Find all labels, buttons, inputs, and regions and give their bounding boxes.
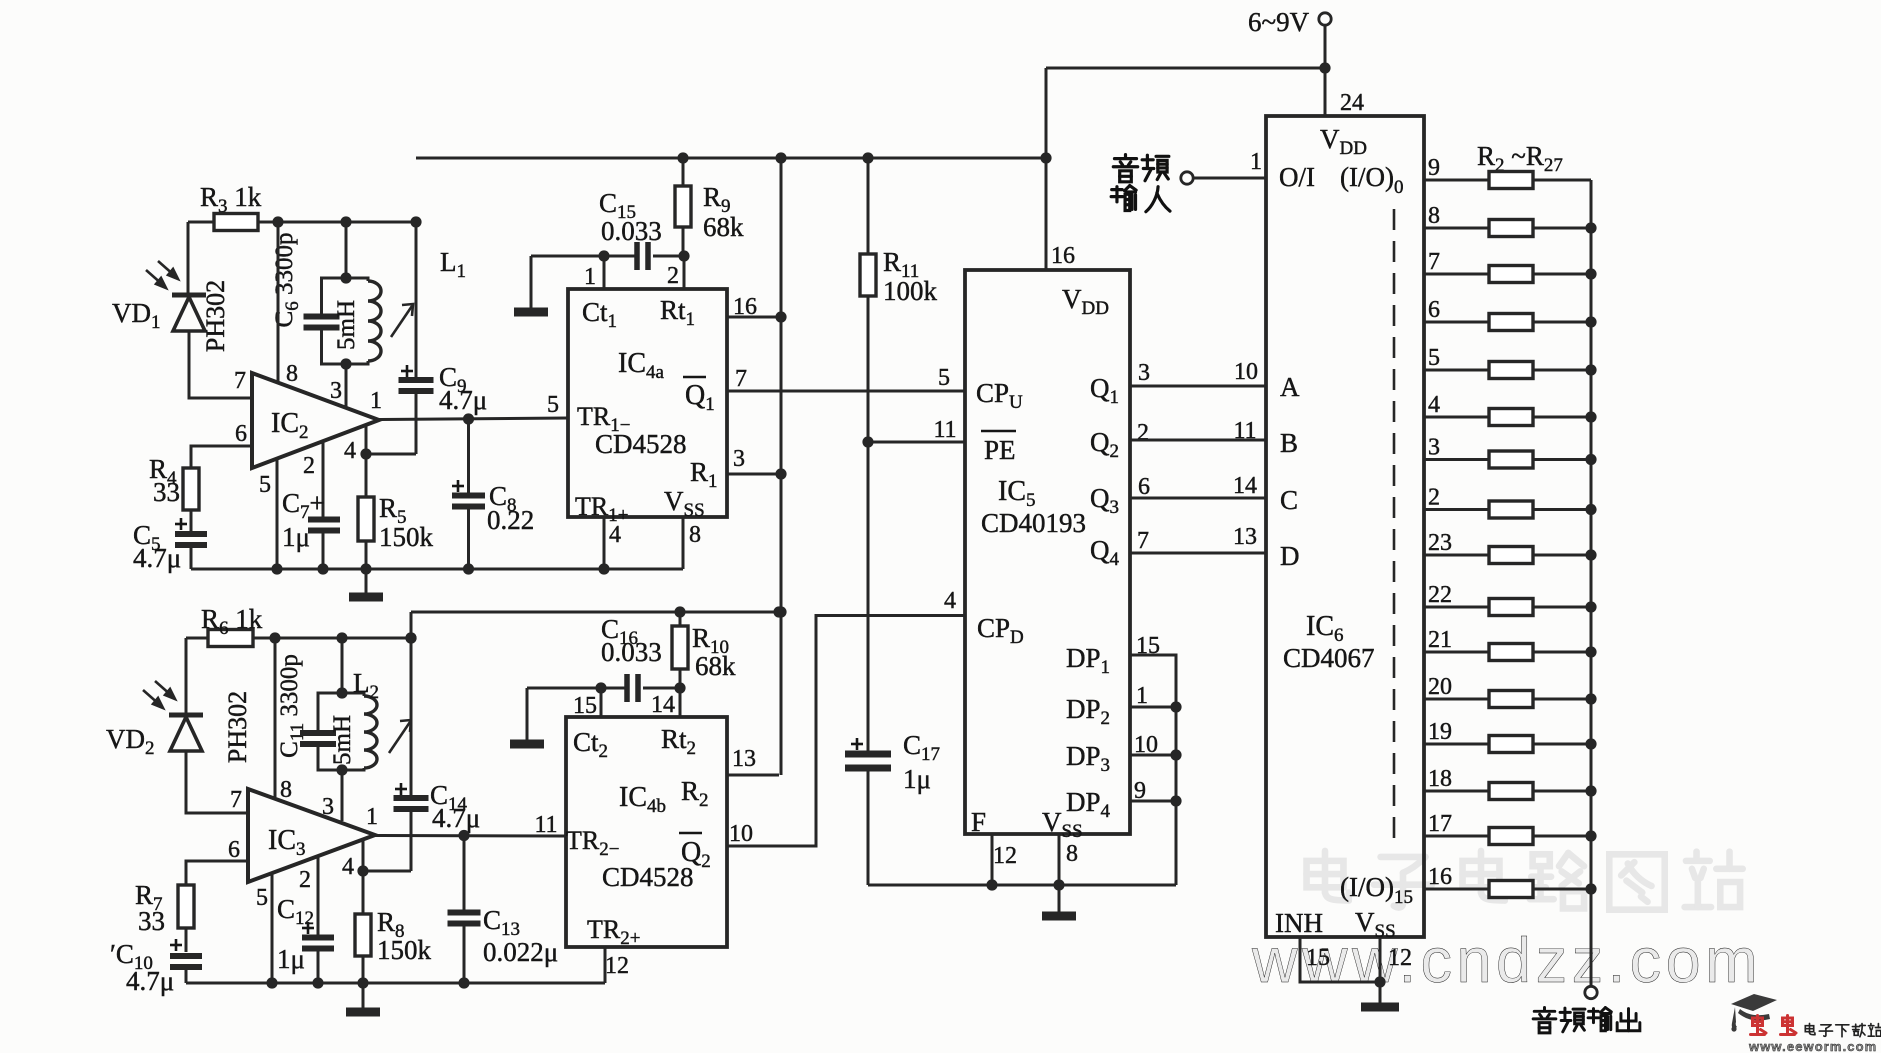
- eeworm logo text: [1751, 1016, 1767, 1035]
- wire IC2 pin4 upper: [365, 425, 368, 497]
- junction bus pin 8: [1585, 222, 1596, 233]
- wire V+ vertical feed: [780, 158, 783, 775]
- wire C9 upper leg: [415, 222, 418, 377]
- wire pin4 to C9 leg: [366, 453, 416, 456]
- wire C16 left net: [527, 687, 627, 690]
- svg-text:11: 11: [933, 417, 956, 443]
- resistor R9: [675, 186, 691, 227]
- junctions on R3 rail: [272, 216, 421, 227]
- svg-text:D: D: [1280, 541, 1300, 571]
- resistor R11: [860, 254, 876, 296]
- plus C17: [851, 738, 863, 750]
- wire VD1 to IC2 pin7: [189, 331, 252, 398]
- resistor ladder R15 (pin 18): [1489, 783, 1533, 800]
- svg-text:5mH: 5mH: [333, 300, 360, 350]
- svg-text:10: 10: [1134, 732, 1158, 758]
- label audio input (Chinese): [1113, 155, 1137, 182]
- plus C9: [401, 365, 413, 377]
- resistor ladder R14 (pin 19): [1489, 736, 1533, 753]
- wire channel1 bottom rail: [191, 568, 683, 571]
- wire pin24 stub: [1324, 68, 1327, 116]
- ground ch1: [349, 569, 383, 597]
- adjustable-core arrow L1: [391, 304, 413, 337]
- capacitor C6 (tank): [304, 317, 340, 328]
- wire pin15 stub: [600, 688, 603, 717]
- wire IC6 pin 7 out: [1424, 273, 1489, 276]
- junction bus pin 3: [1585, 454, 1596, 465]
- svg-text:18: 18: [1428, 766, 1452, 792]
- resistor ladder R11 (pin 22): [1489, 599, 1533, 616]
- wire C14 lower leg: [410, 810, 413, 871]
- wire Q1bar to CPU: [727, 390, 965, 393]
- wire IC3 pin5 to rail: [271, 873, 274, 983]
- wire R6 left: [186, 637, 208, 640]
- wire IC3 pin4 upper: [362, 840, 365, 914]
- junction tank2 top: [336, 687, 347, 698]
- wire DP bus and DP1: [1130, 655, 1176, 885]
- svg-text:PH302: PH302: [201, 280, 230, 352]
- junction pin4/C9 tap: [360, 448, 371, 459]
- junction tank2 bottom: [336, 764, 347, 775]
- capacitor C12: [302, 938, 334, 949]
- wire R6 output rail: [253, 637, 411, 640]
- svg-text:5: 5: [256, 885, 268, 911]
- terminal audio output: [1585, 986, 1597, 998]
- junction C16/R10/pin14: [674, 682, 685, 693]
- photodiode VD2 PH302: [169, 715, 203, 751]
- svg-text:8: 8: [286, 361, 298, 387]
- wire R4 to C5: [190, 510, 193, 531]
- svg-text:1μ: 1μ: [903, 764, 931, 794]
- resistor R3: [214, 214, 258, 231]
- svg-text:9: 9: [1428, 155, 1440, 181]
- svg-text:2: 2: [667, 263, 679, 289]
- svg-text:8: 8: [689, 522, 701, 548]
- wire IC6 pin 2 out: [1424, 508, 1489, 511]
- ground ch2: [346, 983, 380, 1012]
- svg-text:0.033: 0.033: [601, 216, 662, 246]
- svg-text:B: B: [1280, 428, 1298, 458]
- junction bus pin 18: [1585, 785, 1596, 796]
- svg-text:5: 5: [938, 365, 950, 391]
- junction bus pin 5: [1585, 364, 1596, 375]
- svg-text:3: 3: [322, 794, 334, 820]
- junction PE: [862, 436, 873, 447]
- svg-text:17: 17: [1428, 811, 1452, 837]
- svg-text:1: 1: [1250, 149, 1262, 175]
- inductor L1 5mH: [368, 281, 381, 361]
- resistor ladder R16 (pin 17): [1489, 828, 1533, 845]
- junction bus pin 23: [1585, 549, 1596, 560]
- capacitor C7: [308, 520, 340, 531]
- wire R8 to bus: [1533, 458, 1591, 461]
- wire C17 lower: [867, 768, 870, 885]
- wire C5 to rail: [190, 546, 193, 569]
- svg-text:9: 9: [1134, 778, 1146, 804]
- svg-text:16: 16: [1051, 243, 1075, 269]
- junction tank bottom: [340, 358, 351, 369]
- wire IC6 pin 17 out: [1424, 835, 1489, 838]
- svg-text:4.7μ: 4.7μ: [126, 966, 174, 996]
- svg-text:3: 3: [1428, 435, 1440, 461]
- wire VD2 cathode: [185, 638, 188, 715]
- svg-text:1: 1: [1136, 683, 1148, 709]
- svg-text:4.7μ: 4.7μ: [432, 803, 480, 833]
- wire pin2 stub: [683, 256, 686, 289]
- svg-text:5: 5: [1428, 345, 1440, 371]
- junction bus pin 22: [1585, 601, 1596, 612]
- inductor L2 5mH: [364, 696, 377, 768]
- plus C12: [302, 922, 314, 934]
- wire R9 top: [682, 158, 685, 186]
- wire tank left lower: [322, 329, 347, 364]
- wire IC6 pin 6 out: [1424, 321, 1489, 324]
- capacitor C13: [448, 913, 481, 924]
- resistor R4: [183, 468, 199, 510]
- wire tank2 right upper: [342, 693, 364, 696]
- wire IC3 pin2 upper: [317, 857, 320, 936]
- wire Q3 to C: [1130, 497, 1266, 500]
- svg-text:7: 7: [1137, 528, 1149, 554]
- wire C16 right: [643, 687, 680, 690]
- light arrows into VD2: [143, 681, 175, 708]
- svg-text:13: 13: [1233, 524, 1257, 550]
- wire IC6 pin 19 out: [1424, 743, 1489, 746]
- wire tank2 right lower: [342, 768, 364, 770]
- svg-text:10: 10: [1234, 359, 1258, 385]
- wire R3 left: [188, 221, 214, 224]
- resistor ladder R4 (pin 7): [1489, 266, 1533, 283]
- capacitor C9: [399, 380, 434, 391]
- svg-text:2: 2: [299, 867, 311, 893]
- svg-text:13: 13: [732, 746, 756, 772]
- svg-text:0.022μ: 0.022μ: [483, 937, 558, 967]
- ground IC6: [1361, 1003, 1399, 1012]
- wire pin12 to rail: [604, 947, 607, 983]
- capacitor C10: [170, 956, 202, 967]
- resistor ladder R12 (pin 21): [1489, 644, 1533, 661]
- svg-text:4: 4: [342, 854, 354, 880]
- wire R3 output rail: [258, 221, 416, 224]
- wire pin14 stub: [679, 688, 682, 717]
- svg-text:CD4528: CD4528: [602, 862, 694, 892]
- svg-text:12: 12: [1388, 945, 1412, 971]
- junction pin15/C16: [595, 682, 606, 693]
- wire IC6 pin 8 out: [1424, 227, 1489, 230]
- svg-text:15: 15: [1136, 633, 1160, 659]
- wire pin3 to V+: [727, 473, 781, 476]
- wire IC2 pin6 to R4: [191, 446, 252, 468]
- light arrows into VD1: [146, 261, 178, 288]
- wire tank left upper: [322, 278, 347, 314]
- svg-text:15: 15: [573, 693, 597, 719]
- wire IC6 pin 20 out: [1424, 698, 1489, 701]
- svg-text:24: 24: [1340, 90, 1364, 116]
- resistor R7: [178, 885, 194, 928]
- junction output/C13: [458, 830, 469, 841]
- svg-text:6: 6: [235, 421, 247, 447]
- wire C12 to rail: [317, 949, 320, 983]
- junction V+ rail/IC5 feed: [1040, 152, 1051, 163]
- junction bus pin 6: [1585, 316, 1596, 327]
- wire supply drop: [1324, 26, 1327, 65]
- wire IC6 pin 18 out: [1424, 790, 1489, 793]
- wire R12 to bus: [1533, 651, 1591, 654]
- wire C15 left net: [531, 255, 637, 258]
- ground C15: [514, 256, 548, 312]
- eeworm logo graduation cap: [1731, 994, 1777, 1032]
- svg-text:8: 8: [1428, 203, 1440, 229]
- svg-text:68k: 68k: [703, 212, 744, 242]
- svg-text:R3 1k: R3 1k: [200, 182, 262, 217]
- svg-text:3: 3: [1138, 360, 1150, 386]
- wire R13 to bus: [1533, 698, 1591, 701]
- wire audio input to pin1: [1193, 177, 1266, 180]
- svg-text:150k: 150k: [379, 522, 434, 552]
- resistor ladder R9 (pin 2): [1489, 501, 1533, 518]
- wire R15 to bus: [1533, 790, 1591, 793]
- label audio output (Chinese): [1533, 1008, 1556, 1033]
- svg-text:100k: 100k: [883, 276, 938, 306]
- svg-text:A: A: [1280, 372, 1300, 402]
- junctions V+ rail2: [674, 606, 784, 617]
- wire DP2: [1130, 706, 1176, 709]
- wire Q2 to B: [1130, 439, 1266, 442]
- svg-text:10: 10: [729, 821, 753, 847]
- wire tank2 top feed: [341, 638, 344, 693]
- wire IC6 pin 21 out: [1424, 651, 1489, 654]
- svg-text:5: 5: [259, 472, 271, 498]
- wire DP4: [1130, 800, 1176, 803]
- wire tank to IC2 pin3: [345, 364, 348, 408]
- junction bus pin 7: [1585, 268, 1596, 279]
- junctions IC5 ground rail: [986, 879, 1064, 890]
- wire F stub: [991, 834, 994, 885]
- svg-text:4: 4: [944, 588, 956, 614]
- svg-text:7: 7: [230, 787, 242, 813]
- svg-text:16: 16: [733, 294, 757, 320]
- wire VSS stub IC5: [1058, 834, 1061, 885]
- monostable IC4a box: [568, 289, 727, 517]
- wire output bus: [1590, 180, 1593, 986]
- svg-text:68k: 68k: [695, 651, 736, 681]
- svg-text:4: 4: [609, 522, 621, 548]
- svg-text:21: 21: [1428, 627, 1452, 653]
- capacitor C14: [394, 798, 429, 809]
- junction bus pin 2: [1585, 504, 1596, 515]
- wire IC6 pin 4 out: [1424, 416, 1489, 419]
- svg-text:8: 8: [1066, 841, 1078, 867]
- wire pin16 to V+: [727, 316, 781, 319]
- svg-text:22: 22: [1428, 582, 1452, 608]
- wire VD2 to IC3 pin7: [186, 751, 248, 813]
- resistor ladder R13 (pin 20): [1489, 691, 1533, 708]
- svg-text:4.7μ: 4.7μ: [439, 385, 487, 415]
- svg-text:1μ: 1μ: [277, 944, 305, 974]
- svg-text:11: 11: [534, 812, 557, 838]
- resistor R6: [208, 630, 253, 647]
- terminal 6~9V: [1319, 13, 1331, 25]
- resistor R10: [672, 626, 688, 669]
- svg-text:PH302: PH302: [223, 691, 252, 763]
- svg-text:7: 7: [735, 366, 747, 392]
- wire PE to IC5: [868, 441, 965, 444]
- resistor ladder R7 (pin 4): [1489, 409, 1533, 426]
- resistor ladder R6 (pin 5): [1489, 362, 1533, 379]
- svg-text:1: 1: [584, 264, 596, 290]
- svg-text:23: 23: [1428, 530, 1452, 556]
- wire pin4 to C14 leg: [363, 870, 411, 873]
- svg-text:6: 6: [1428, 297, 1440, 323]
- svg-text:CD40193: CD40193: [981, 508, 1086, 538]
- wire R17 to bus: [1533, 888, 1591, 891]
- svg-text:CD4528: CD4528: [595, 429, 687, 459]
- svg-text:2: 2: [303, 453, 315, 479]
- svg-text:1μ: 1μ: [282, 522, 310, 552]
- svg-text:7: 7: [1428, 249, 1440, 275]
- multiplexer IC6 box: [1266, 116, 1424, 937]
- svg-text:5: 5: [547, 392, 559, 418]
- wire IC3 out to TR2-: [375, 834, 566, 838]
- svg-text:7: 7: [234, 368, 246, 394]
- op-amp IC3: [248, 789, 375, 882]
- svg-text:4: 4: [344, 438, 356, 464]
- resistor R8: [355, 914, 371, 956]
- svg-text:R6 1k: R6 1k: [201, 604, 263, 639]
- junction bus pin 4: [1585, 411, 1596, 422]
- wire VD1 cathode: [187, 222, 190, 295]
- wire C9 lower leg: [415, 392, 418, 454]
- svg-text:C: C: [1280, 485, 1298, 515]
- svg-text:3: 3: [733, 446, 745, 472]
- svg-text:2: 2: [1428, 485, 1440, 511]
- wire C7 to rail: [322, 531, 325, 569]
- wire R6 to bus: [1533, 369, 1591, 372]
- plus C14: [395, 783, 407, 795]
- svg-text:33: 33: [138, 906, 165, 936]
- wire C14 upper leg: [410, 612, 413, 795]
- wire IC6 pin 16 out: [1424, 888, 1489, 891]
- wire INH to VSS: [1300, 937, 1380, 982]
- wire R11 top: [867, 158, 870, 254]
- wire Q2bar to CPD: [727, 616, 965, 847]
- resistor ladder R3 (pin 8): [1489, 220, 1533, 237]
- wire pin13 to V+: [727, 774, 779, 777]
- junction output/C8: [463, 413, 474, 424]
- svg-text:PE: PE: [984, 435, 1016, 465]
- junction bus pin 16: [1585, 883, 1596, 894]
- wire tank right upper: [346, 278, 368, 281]
- svg-text:14: 14: [1233, 473, 1257, 499]
- wire R7 to bus: [1533, 416, 1591, 419]
- wire channel2 bottom rail: [186, 982, 605, 985]
- svg-text:33: 33: [153, 477, 180, 507]
- wire V+ rail y158: [416, 157, 1046, 160]
- resistor ladder R5 (pin 6): [1489, 314, 1533, 331]
- wire supply rail y68: [1046, 67, 1325, 70]
- svg-text:15: 15: [1306, 945, 1330, 971]
- wire V+ rail2 y612: [411, 611, 779, 614]
- wire R2 to bus: [1533, 179, 1591, 182]
- wire R10 to bus: [1533, 554, 1591, 557]
- wire C13 upper: [463, 836, 466, 912]
- wire IC2 pin8 to rail: [277, 222, 280, 383]
- wire IC2 out to TR1-: [379, 418, 568, 420]
- wire tank right lower: [346, 361, 368, 364]
- junction V+/R11: [862, 152, 873, 163]
- wire IC2 pin2 upper: [322, 442, 325, 518]
- plus C8: [452, 480, 464, 492]
- svg-text:3: 3: [330, 378, 342, 404]
- plus C5: [175, 518, 187, 530]
- wire R10 bottom: [679, 669, 682, 688]
- ground IC5: [1042, 885, 1076, 916]
- svg-text:150k: 150k: [377, 935, 432, 965]
- svg-text:20: 20: [1428, 674, 1452, 700]
- wire R16 to bus: [1533, 835, 1591, 838]
- junction bus pin 17: [1585, 830, 1596, 841]
- wire R9 bottom: [682, 227, 685, 256]
- svg-text:6~9V: 6~9V: [1248, 7, 1310, 37]
- svg-text:16: 16: [1428, 864, 1452, 890]
- plus C10: [170, 939, 182, 951]
- junction C14 leg/R6 rail: [405, 632, 416, 643]
- capacitor C8: [452, 496, 485, 507]
- junction tank top: [340, 272, 351, 283]
- wire tank2 left lower: [318, 746, 342, 771]
- capacitor C5: [175, 534, 207, 545]
- junction supply/pin24: [1319, 62, 1330, 73]
- svg-text:6: 6: [1138, 474, 1150, 500]
- resistor ladder R8 (pin 3): [1489, 451, 1533, 468]
- wire R5 to bus: [1533, 321, 1591, 324]
- junctions DP bus: [1170, 701, 1181, 806]
- wire IC5 ground rail: [868, 884, 1176, 887]
- wire pin8 to rail: [682, 517, 685, 569]
- svg-text:1: 1: [366, 804, 378, 830]
- svg-text:2: 2: [1137, 420, 1149, 446]
- wire IC6 pin 5 out: [1424, 369, 1489, 372]
- photodiode VD1 PH302: [172, 295, 206, 331]
- capacitor C15: [637, 242, 648, 270]
- wire IC3 pin6 to R7: [186, 861, 248, 885]
- op-amp IC2: [252, 373, 379, 468]
- svg-text:CD4067: CD4067: [1283, 643, 1375, 673]
- junctions V+ vertical: [775, 152, 786, 617]
- wire R5 to rail: [365, 541, 368, 569]
- svg-text:0.22: 0.22: [487, 505, 534, 535]
- wire C10 to rail: [185, 967, 188, 983]
- svg-text:4: 4: [1428, 392, 1440, 418]
- wire C15 right: [653, 255, 684, 258]
- wire R11 to PE and C17: [867, 296, 870, 752]
- junction C15/R9/pin2: [678, 250, 689, 261]
- junction pin4/C14 tap ch2: [357, 865, 368, 876]
- dashed internal bus IC6: [1393, 209, 1396, 844]
- junctions channel2 rail: [266, 977, 469, 988]
- svg-text:12: 12: [605, 953, 629, 979]
- junction bus pin 21: [1585, 646, 1596, 657]
- wire R3 to bus: [1533, 227, 1591, 230]
- capacitor C17: [845, 754, 891, 768]
- junction bus pin 19: [1585, 738, 1596, 749]
- svg-text:8: 8: [280, 777, 292, 803]
- svg-text:5mH: 5mH: [329, 715, 356, 765]
- wire IC3 pin8 to rail: [274, 638, 277, 797]
- junction V+/R9: [677, 152, 688, 163]
- wire R11 to bus: [1533, 606, 1591, 609]
- svg-text:F: F: [971, 807, 986, 837]
